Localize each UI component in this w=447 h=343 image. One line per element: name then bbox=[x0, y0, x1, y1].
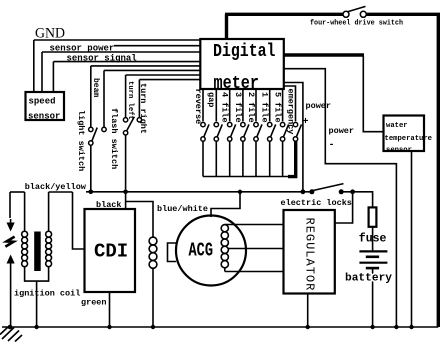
svg-text:power: power bbox=[306, 101, 332, 111]
wire stator coil feed bbox=[126, 202, 153, 239]
svg-text:power: power bbox=[329, 126, 355, 136]
water temperature sensor box bbox=[384, 116, 425, 152]
main horizontal bus (switch commons to electric locks) bbox=[86, 191, 313, 193]
wire spark to ignition coil bridge bbox=[10, 191, 25, 193]
wire beam drop bbox=[103, 70, 105, 127]
bold wire to four wheel drive switch bbox=[225, 13, 343, 16]
wire light switch drop bbox=[90, 66, 92, 127]
electric locks switch blade bbox=[313, 184, 344, 191]
wire turn left to meter bbox=[126, 74, 201, 76]
svg-text:black/yellow: black/yellow bbox=[25, 182, 87, 192]
four wheel drive switch contact left bbox=[343, 11, 349, 17]
regulator box U3 bbox=[284, 210, 335, 294]
svg-text:temperature: temperature bbox=[385, 135, 432, 143]
switch light: contact light bbox=[89, 127, 93, 131]
svg-text:sensor: sensor bbox=[386, 146, 412, 154]
ACG rotor coil bbox=[221, 225, 228, 268]
bold wire meter right power feed bbox=[284, 53, 364, 56]
wire sensor signal bbox=[53, 61, 200, 63]
wire speed sensor power lead bbox=[41, 52, 43, 92]
ACG alternator circle bbox=[176, 216, 246, 286]
fuse F1 bbox=[369, 207, 377, 226]
svg-text:green: green bbox=[81, 298, 107, 308]
wire beam to meter bbox=[104, 69, 200, 71]
ground symbol bbox=[0, 327, 22, 342]
junction dot regulator-bus bbox=[306, 325, 310, 329]
switch turn: common contact bbox=[123, 131, 127, 135]
wire black/yellow drop to CDI bbox=[73, 192, 85, 249]
junction dot power plus joins locks bus bbox=[301, 189, 306, 194]
junction dot spark-bus bbox=[8, 325, 13, 330]
svg-text:speed: speed bbox=[29, 97, 56, 107]
bold wire switch to right edge bbox=[366, 14, 438, 327]
wire spark plug to ground bus bbox=[10, 260, 12, 327]
junction dot locks-regulator bbox=[350, 189, 355, 194]
switch turn: contact turn left bbox=[123, 118, 127, 122]
wire power plus from meter bbox=[284, 83, 303, 193]
svg-text:black: black bbox=[96, 200, 122, 210]
wire regulator bottom to ground bus bbox=[307, 294, 309, 328]
wire ACG to regulator 1 bbox=[225, 224, 284, 226]
ignition coil secondary top lead bbox=[48, 192, 50, 231]
wire GND horizontal bbox=[34, 39, 201, 41]
wire black bus to CDI top bbox=[125, 192, 127, 209]
wire spark plug lead bbox=[9, 192, 11, 218]
wire blue/white bus to ACG bbox=[211, 192, 240, 217]
wire aux line bbox=[114, 45, 200, 47]
four wheel drive switch contact right bbox=[360, 11, 366, 17]
electric locks switch contact right bbox=[339, 189, 344, 194]
battery plate short 2 bbox=[366, 267, 379, 270]
wire sensor power bbox=[42, 51, 200, 53]
battery plate long 2 bbox=[359, 262, 387, 264]
digital meter box U1 bbox=[200, 39, 283, 89]
ground bus bottom bbox=[2, 326, 438, 328]
svg-text:2 file: 2 file bbox=[246, 92, 256, 123]
ignition coil primary top lead bbox=[24, 192, 26, 231]
wire ACG to regulator 3 bbox=[225, 268, 284, 272]
spark gap arrow up bbox=[7, 255, 15, 264]
battery BT1 plate long 1 bbox=[359, 250, 387, 252]
junction dot water sensor bus bbox=[409, 325, 413, 329]
wire stator coil to ground bus bbox=[152, 268, 154, 328]
junction dot coil-bus bbox=[34, 325, 38, 329]
svg-text:REGULATOR: REGULATOR bbox=[303, 218, 317, 292]
junction dot green-bus bbox=[107, 325, 111, 329]
wire regulator right feed bbox=[335, 192, 353, 223]
switch light: contact beam bbox=[102, 127, 106, 131]
wire locks to fuse bbox=[341, 192, 372, 208]
junction dot turn common / black bbox=[123, 190, 128, 195]
CDI box U2 bbox=[85, 209, 136, 292]
junction dot blue/white bbox=[238, 190, 242, 194]
wire power minus from meter bbox=[284, 69, 396, 327]
wire turn common drop bbox=[125, 135, 127, 192]
spark gap lightning bbox=[5, 237, 14, 247]
svg-text:reverse: reverse bbox=[193, 89, 203, 125]
battery plate short 1 bbox=[366, 255, 379, 258]
wire turn right drop bbox=[138, 80, 140, 118]
svg-text:electric locks: electric locks bbox=[281, 198, 352, 208]
wire emergency feed from meter bbox=[284, 86, 296, 121]
svg-text:light switch: light switch bbox=[76, 110, 86, 171]
svg-text:CDI: CDI bbox=[94, 241, 128, 263]
svg-text:GND: GND bbox=[35, 26, 65, 42]
switch light: common contact bbox=[89, 141, 93, 145]
svg-text:battery: battery bbox=[345, 273, 392, 285]
junction dot stator-bus bbox=[151, 325, 155, 329]
svg-text:ACG: ACG bbox=[189, 240, 214, 262]
wire light common drop bbox=[90, 145, 92, 192]
svg-text:beam: beam bbox=[91, 78, 100, 97]
junction dot light common bbox=[89, 190, 94, 195]
wire turn left drop bbox=[125, 75, 127, 118]
speed sensor box bbox=[26, 92, 65, 120]
svg-text:four-wheel drive switch: four-wheel drive switch bbox=[310, 20, 403, 28]
switch bank common bus bbox=[203, 176, 290, 178]
bold wire meter top bbox=[225, 14, 228, 40]
ignition coil primary winding bbox=[22, 231, 28, 266]
ignition coil core bbox=[34, 232, 41, 272]
svg-text:+: + bbox=[303, 117, 309, 128]
wire ACG to regulator 2 bbox=[228, 248, 283, 250]
wire turn right to meter bbox=[139, 79, 200, 81]
svg-text:meter: meter bbox=[214, 74, 260, 94]
svg-text:4 file: 4 file bbox=[220, 92, 230, 123]
wire light switch to meter bbox=[91, 65, 201, 67]
ACG left tab bbox=[168, 243, 177, 262]
wire fuse to battery bbox=[372, 227, 374, 251]
bold emergency return wire bbox=[288, 141, 297, 176]
spark gap arrow down bbox=[7, 223, 15, 232]
svg-text:turn right: turn right bbox=[138, 83, 148, 134]
wire ignition coil to CDI bridge bbox=[49, 191, 73, 193]
stator coil L1 bbox=[149, 237, 157, 268]
wire battery to ground bus bbox=[372, 268, 374, 327]
svg-text:-: - bbox=[329, 140, 335, 151]
electric locks switch contact left bbox=[309, 189, 314, 194]
svg-text:1 file: 1 file bbox=[260, 92, 270, 123]
switch light: blade bbox=[92, 128, 97, 142]
svg-text:5 file: 5 file bbox=[273, 92, 283, 123]
svg-text:3 file: 3 file bbox=[233, 92, 243, 123]
four wheel drive switch blade bbox=[348, 6, 366, 11]
ignition coil bottom link bbox=[25, 266, 49, 327]
wire green CDI bottom bbox=[109, 292, 111, 327]
svg-text:water: water bbox=[386, 122, 408, 130]
svg-text:sensor: sensor bbox=[28, 112, 60, 122]
wire speed sensor GND lead bbox=[33, 40, 35, 92]
wire water temp sensor to ground bus bbox=[411, 151, 413, 327]
ignition coil secondary winding bbox=[46, 231, 52, 266]
switch turn: blade bbox=[127, 117, 135, 131]
switch turn: contact turn right bbox=[137, 118, 141, 122]
svg-text:Digital: Digital bbox=[213, 42, 276, 62]
svg-text:turn left: turn left bbox=[126, 81, 134, 120]
svg-text:blue/white: blue/white bbox=[157, 204, 208, 214]
svg-text:flash switch: flash switch bbox=[109, 108, 119, 169]
svg-text:emergency: emergency bbox=[286, 89, 296, 135]
junction dot battery-bus bbox=[370, 325, 374, 329]
wire to water temperature sensor bbox=[363, 56, 383, 132]
svg-text:gap: gap bbox=[206, 92, 216, 107]
junction dot power minus bus bbox=[394, 325, 398, 329]
wire speed sensor signal lead bbox=[52, 62, 54, 92]
svg-text:ignition coil: ignition coil bbox=[14, 289, 80, 299]
